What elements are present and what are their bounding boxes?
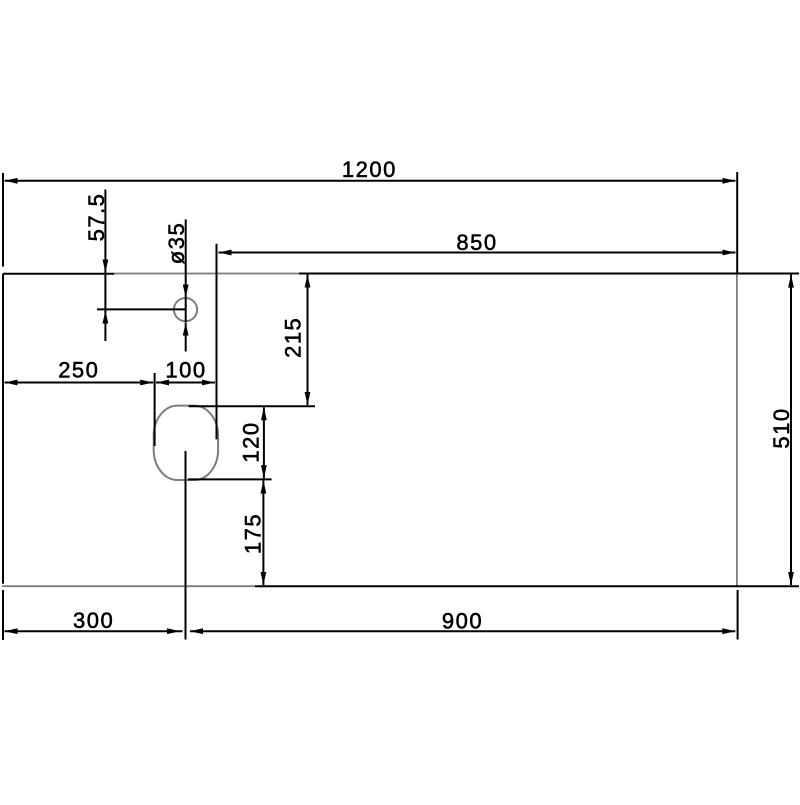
- dimension 1200 line: [5, 178, 736, 184]
- svg-text:175: 175: [241, 513, 266, 554]
- countertop panel bottom edge (gray left segment): [2, 585, 255, 587]
- extension line right bottom for 900: [737, 590, 739, 640]
- dimension 215 line: [305, 275, 311, 406]
- extension line sink left edge for 250 and 100: [154, 373, 156, 446]
- dimension 510 text: [769, 407, 794, 448]
- faucet hole circle ø35: [174, 298, 197, 321]
- dimension 250 line: [5, 380, 154, 386]
- dimension ø35 text: [164, 222, 189, 264]
- svg-text:57.5: 57.5: [84, 193, 109, 242]
- extension line sink right edge for 850 and 100: [216, 244, 218, 440]
- dimension 120 line: [261, 407, 267, 478]
- svg-text:215: 215: [281, 317, 306, 358]
- dimension 850 text: [456, 230, 497, 255]
- countertop panel top edge black segment left: [3, 273, 114, 275]
- dimension 120 text: [239, 421, 264, 462]
- dimension 175 line: [261, 481, 267, 586]
- dimension 215 text: [281, 317, 306, 358]
- svg-text:510: 510: [769, 407, 794, 448]
- countertop panel top edge (gray middle segment): [114, 273, 299, 275]
- dimension 900 text: [442, 609, 483, 634]
- dimension 300 text: [73, 608, 114, 633]
- dimension 1200 text: [342, 157, 397, 182]
- countertop panel left edge with extensions for 1200 and 300: [2, 173, 4, 640]
- svg-text:120: 120: [239, 421, 264, 462]
- dimension 57.5 lines and arrows: [97, 190, 186, 342]
- dimension 300 line: [5, 628, 183, 634]
- countertop panel bottom edge black segment plus 510 bottom extension: [255, 585, 799, 587]
- extension line sink bottom for 120 and 175: [188, 478, 272, 480]
- svg-text:250: 250: [58, 358, 99, 383]
- dimension 57.5 text: [84, 193, 109, 242]
- dimension ø35 lines and arrows: [183, 219, 189, 351]
- dimension 100 text: [165, 358, 206, 383]
- svg-text:900: 900: [442, 609, 483, 634]
- dimension 850 line: [219, 250, 736, 256]
- dimension 175 text: [241, 513, 266, 554]
- extension line right for 1200 and 850: [736, 172, 738, 274]
- dimension 510 line: [788, 275, 794, 585]
- dimension 250 text: [58, 358, 99, 383]
- dimension 900 line: [190, 628, 735, 634]
- sink centerline extension for 300 and 900: [185, 451, 187, 640]
- svg-text:ø35: ø35: [164, 222, 189, 264]
- svg-text:850: 850: [456, 230, 497, 255]
- svg-text:300: 300: [73, 608, 114, 633]
- svg-text:1200: 1200: [342, 157, 397, 182]
- countertop panel right edge (gray): [736, 274, 738, 587]
- extension line sink top for 215 and 120: [189, 405, 315, 407]
- dimension 100 line: [156, 380, 215, 386]
- sink cutout rounded rectangle: [154, 406, 218, 480]
- countertop panel top edge black segment right plus 510 top extension: [299, 273, 799, 275]
- svg-text:100: 100: [165, 358, 206, 383]
